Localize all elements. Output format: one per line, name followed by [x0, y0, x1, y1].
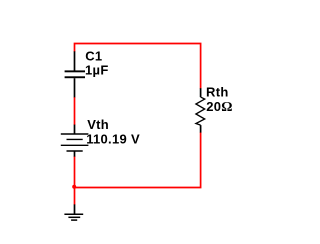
resistor Rth	[196, 88, 205, 132]
C1 bottom lead	[74, 78, 76, 97]
Vth bottom lead	[74, 151, 76, 157]
capacitor C1	[65, 51, 85, 97]
C1 top lead	[74, 51, 76, 70]
Vth plate long 1	[61, 133, 89, 135]
C1 bottom plate	[65, 76, 85, 78]
ground	[64, 204, 83, 220]
wire: top net (C1 top, over to Rth top)	[75, 44, 201, 89]
Rth top lead	[200, 88, 202, 97]
ground bar 2	[68, 216, 80, 218]
ground bar 3	[71, 219, 77, 221]
ground lead	[74, 204, 76, 214]
Vth plate long 2	[61, 144, 89, 146]
battery source Vth	[61, 125, 89, 157]
wire: ground net horizontal (junction to Rth bottom)	[75, 132, 201, 187]
junction dot	[72, 185, 76, 189]
ground bar 1	[64, 213, 83, 215]
svg-text:1µF: 1µF	[85, 63, 109, 78]
Vth plate short 1	[67, 138, 83, 140]
wire: mid net (C1 bottom to Vth plus)	[74, 97, 76, 125]
wire: ground net vertical (Vth minus down past junction)	[74, 157, 76, 205]
Rth bottom lead	[200, 125, 202, 133]
svg-text:C1: C1	[85, 49, 102, 64]
svg-text:110.19 V: 110.19 V	[86, 132, 140, 147]
svg-text:Vth: Vth	[87, 117, 109, 132]
Vth plate short 2	[67, 150, 83, 152]
svg-text:Rth: Rth	[206, 85, 229, 100]
Rth zigzag body	[196, 97, 205, 125]
Vth top lead	[74, 125, 76, 134]
C1 top plate	[65, 70, 85, 72]
svg-text:20Ω: 20Ω	[206, 99, 233, 115]
